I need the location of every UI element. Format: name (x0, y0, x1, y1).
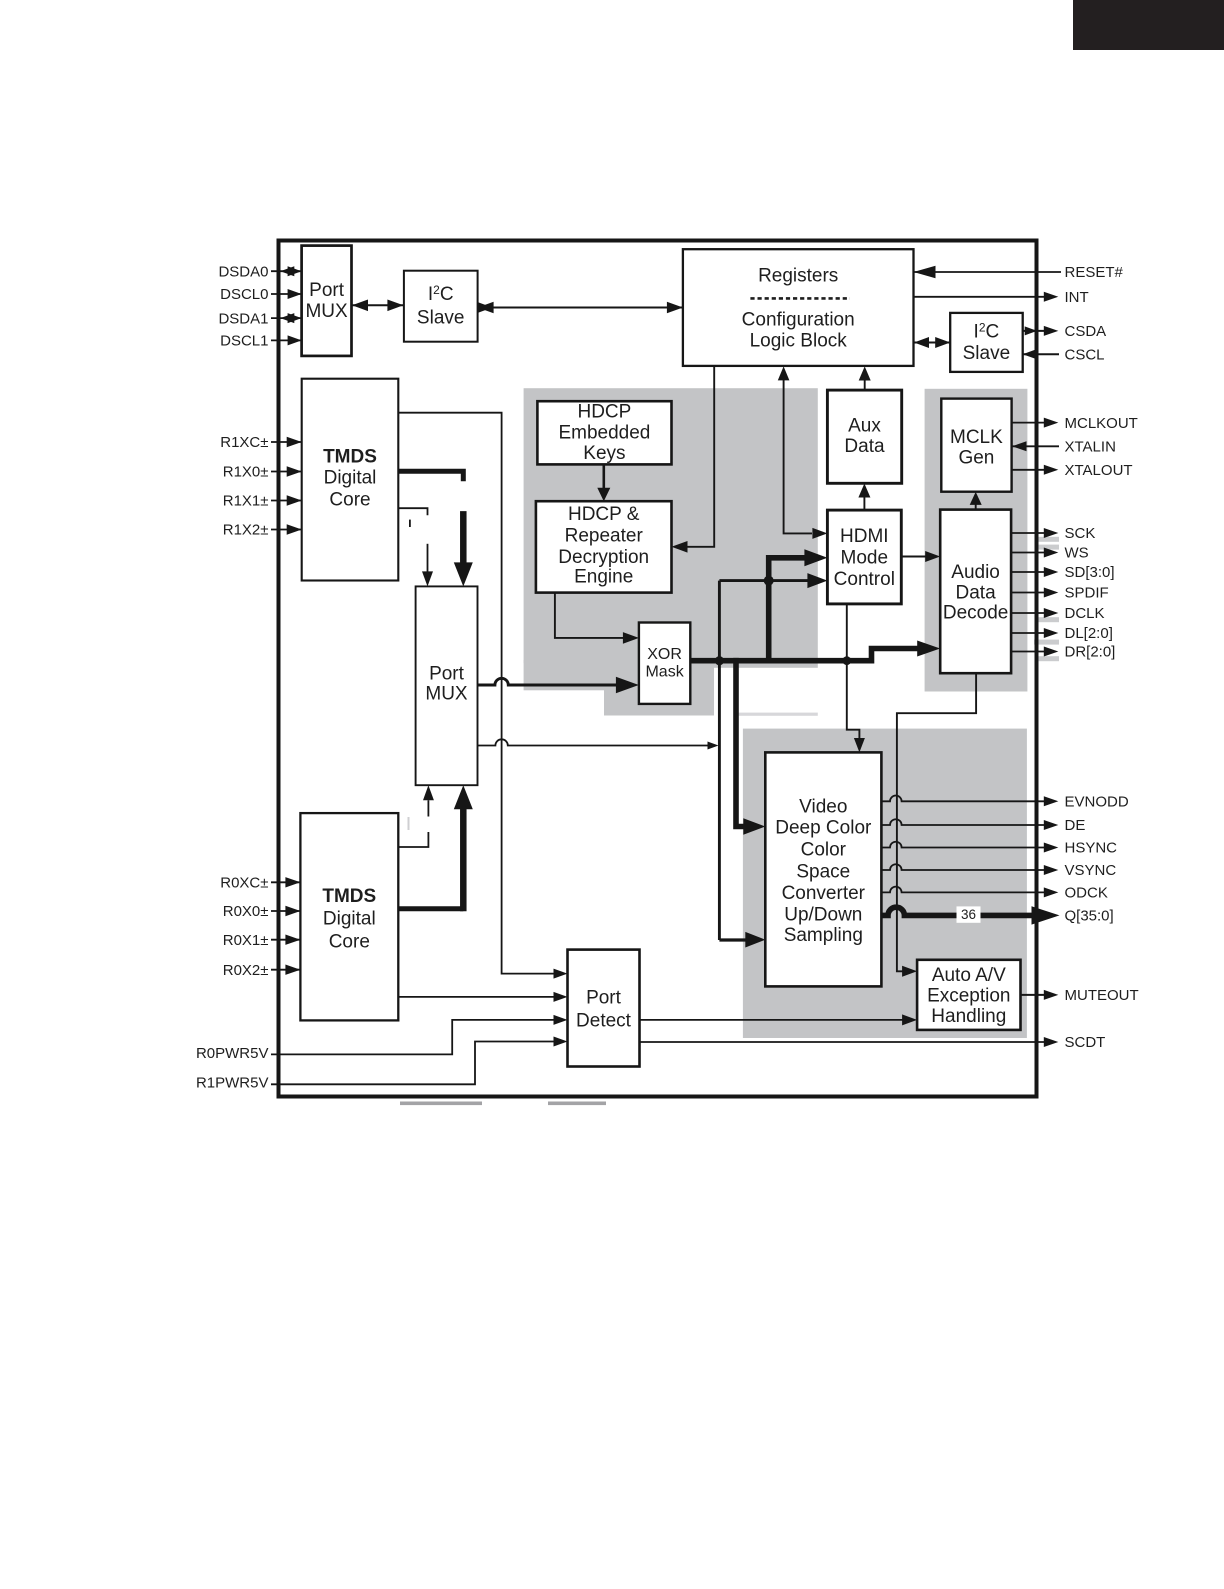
svg-text:Control: Control (834, 569, 895, 590)
block Port MUX (DDC) (302, 246, 352, 356)
block TMDS Digital Core 0 (300, 813, 398, 1020)
block XOR Mask (639, 623, 690, 704)
wire TMDS core 1 thin link to Port MUX (with scan gaps) (398, 508, 433, 586)
svg-text:R0XC±: R0XC± (220, 875, 268, 892)
wire INT output from Registers (914, 292, 1059, 302)
svg-text:DSCL0: DSCL0 (220, 286, 268, 303)
wire HSYNC output (with hop) (881, 842, 1058, 853)
svg-text:Keys: Keys (583, 443, 625, 464)
block Audio Data Decode (940, 510, 1011, 674)
wire XOR mask output main thick line to Audio decode (690, 641, 940, 661)
block MCLK Gen (941, 399, 1011, 492)
block Aux Data (827, 390, 901, 483)
wire R0X2 to TMDS core 0 (271, 965, 300, 975)
svg-text:R0X2±: R0X2± (223, 962, 269, 979)
block Video Deep Color Color Space Converter Up/Down Sampling (765, 752, 881, 986)
svg-text:XTALIN: XTALIN (1065, 439, 1116, 456)
svg-text:Up/Down: Up/Down (784, 904, 862, 925)
svg-text:RESET#: RESET# (1065, 264, 1124, 281)
svg-text:Configuration: Configuration (742, 310, 855, 331)
svg-text:Converter: Converter (782, 883, 866, 904)
svg-text:Data: Data (956, 582, 997, 603)
wire Port Detect to Auto A/V exception handling (640, 1014, 918, 1025)
wire R1PWR5V to Port Detect (271, 1037, 568, 1085)
svg-text:Detect: Detect (576, 1010, 632, 1031)
wire Registers to right I2C Slave (bidirectional) (914, 337, 950, 348)
svg-text:DSDA0: DSDA0 (218, 263, 268, 280)
wire R0PWR5V to Port Detect (271, 1015, 568, 1055)
svg-text:HDMI: HDMI (840, 526, 889, 547)
svg-text:Port: Port (309, 280, 345, 301)
wire I2C Slave to Registers (bidirectional) (477, 302, 683, 314)
svg-text:Deep Color: Deep Color (775, 817, 872, 838)
wire Registers to HDCP decryption engine (672, 366, 715, 553)
svg-text:Port: Port (586, 987, 622, 1008)
svg-text:DSDA1: DSDA1 (218, 310, 268, 327)
wire DSDA1 to Port MUX (bidirectional) (271, 313, 302, 323)
wire SCK output (1011, 528, 1058, 538)
svg-text:R0X1±: R0X1± (223, 932, 269, 949)
svg-text:VSYNC: VSYNC (1065, 862, 1117, 879)
svg-text:MUTEOUT: MUTEOUT (1065, 987, 1139, 1004)
junction dot D3 on main line (842, 656, 851, 665)
svg-text:I2C: I2C (428, 283, 454, 305)
block I2C Slave (left) (404, 271, 478, 342)
block I2C Slave (right) (950, 313, 1023, 372)
block Port MUX (TMDS center) (416, 586, 478, 785)
wire XTALOUT output (1012, 465, 1059, 475)
svg-text:Slave: Slave (963, 343, 1011, 364)
block Auto A/V Exception Handling (917, 960, 1020, 1030)
block HDCP &amp; Repeater Decryption Engine (536, 501, 672, 592)
svg-text:INT: INT (1065, 289, 1089, 306)
wire Audio decode to MCLK Gen (970, 492, 982, 510)
gray dash artifacts below bottom border (400, 1102, 482, 1106)
svg-text:Color: Color (801, 839, 847, 860)
svg-text:CSDA: CSDA (1065, 323, 1107, 340)
wire HDCP engine to XOR mask (555, 593, 639, 644)
svg-text:HSYNC: HSYNC (1065, 840, 1118, 857)
svg-text:Decode: Decode (943, 603, 1009, 624)
svg-text:Repeater: Repeater (565, 526, 644, 547)
svg-text:Video: Video (799, 796, 847, 817)
wire DR[2:0] output (1011, 647, 1058, 657)
gray ghost artifacts near audio pins (1037, 537, 1059, 542)
svg-text:36: 36 (961, 907, 976, 922)
wire Q[35:0] thick bus output (with hop and 36 marker) (881, 906, 1059, 924)
svg-text:Handling: Handling (931, 1006, 1006, 1027)
svg-text:DR[2:0]: DR[2:0] (1065, 644, 1116, 661)
block Port Detect (568, 950, 640, 1067)
svg-text:XOR: XOR (647, 646, 682, 663)
block TMDS Digital Core 1 (302, 379, 399, 581)
svg-text:Registers: Registers (758, 266, 838, 287)
block Registers / Configuration Logic Block (683, 249, 914, 366)
svg-text:Aux: Aux (848, 415, 881, 436)
wire DSDA0 to Port MUX (bidirectional) (271, 266, 302, 276)
wire RESET# input to Registers (914, 266, 1062, 278)
wire DSCL1 to Port MUX (271, 335, 302, 345)
svg-text:Logic Block: Logic Block (750, 331, 848, 352)
svg-text:MCLK: MCLK (950, 427, 1003, 448)
svg-text:R0PWR5V: R0PWR5V (196, 1045, 269, 1062)
wire Port MUX lower output (with hop) (477, 739, 719, 749)
svg-text:TMDS: TMDS (323, 447, 377, 468)
svg-text:Gen: Gen (958, 448, 994, 469)
svg-text:Engine: Engine (574, 567, 633, 588)
svg-text:DSCL1: DSCL1 (220, 333, 268, 350)
wire TMDS core 0 thin link up to Port MUX (with scan gap) (398, 785, 434, 847)
wire SCDT output from Port Detect (640, 1037, 1059, 1047)
gray shaded region G3 (video area) (743, 729, 1027, 1038)
svg-text:Decryption: Decryption (558, 547, 649, 568)
wire HDCP keys to decryption engine (597, 464, 610, 501)
svg-text:R1PWR5V: R1PWR5V (196, 1074, 269, 1091)
svg-text:ODCK: ODCK (1065, 885, 1108, 902)
svg-text:CSCL: CSCL (1065, 346, 1105, 363)
svg-text:Data: Data (844, 436, 885, 457)
gray artifact line under G1 (738, 713, 818, 716)
svg-text:MCLKOUT: MCLKOUT (1065, 415, 1138, 432)
wire R1X0 to TMDS core 1 (271, 466, 302, 476)
svg-text:Digital: Digital (324, 468, 377, 489)
block HDMI Mode Control (827, 510, 901, 604)
svg-text:I2C: I2C (974, 321, 1000, 343)
svg-text:DL[2:0]: DL[2:0] (1065, 625, 1113, 642)
wire thick branch down to video block (736, 658, 765, 835)
svg-text:WS: WS (1065, 545, 1089, 562)
svg-text:Embedded: Embedded (558, 422, 650, 443)
wire DCLK output (1011, 608, 1058, 618)
svg-text:Audio: Audio (951, 562, 1000, 583)
wire DSCL0 to Port MUX (271, 289, 302, 299)
wire HDMI mode control to video block top (with jog) (847, 604, 865, 753)
svg-text:MUX: MUX (425, 683, 468, 704)
svg-text:Core: Core (329, 932, 370, 953)
svg-text:R1X0±: R1X0± (223, 464, 269, 481)
svg-text:R1XC±: R1XC± (220, 434, 268, 451)
svg-text:SPDIF: SPDIF (1065, 585, 1109, 602)
wire TMDS core 1 to Port Detect via long vertical (398, 413, 567, 979)
svg-text:Mask: Mask (645, 663, 684, 680)
svg-text:MUX: MUX (305, 301, 348, 322)
wire TMDS core 1 thick elbow to Port MUX (with scan gap) (396, 471, 473, 586)
svg-text:TMDS: TMDS (322, 886, 376, 907)
svg-text:DCLK: DCLK (1065, 605, 1105, 622)
wire configuration net to Registers and HDMI mode control (778, 366, 828, 539)
wire HDMI mode control to Audio decode (901, 551, 940, 562)
svg-text:Auto A/V: Auto A/V (932, 965, 1006, 986)
block HDCP Embedded Keys (537, 401, 671, 464)
wire R1X2 to TMDS core 1 (271, 524, 302, 534)
wire TMDS core 0 thick elbow up to Port MUX (396, 785, 473, 911)
wire CSDA from right I2C Slave (1023, 326, 1059, 336)
wire Port MUX to XOR mask (with hop) (477, 677, 639, 694)
svg-text:Mode: Mode (841, 548, 889, 569)
wire R1X1 to TMDS core 1 (271, 495, 302, 505)
svg-text:HDCP: HDCP (577, 402, 631, 423)
svg-text:R0X0±: R0X0± (223, 903, 269, 920)
wire R1XC to TMDS core 1 (271, 437, 302, 447)
outer chip border (279, 241, 1037, 1097)
svg-text:Space: Space (796, 861, 850, 882)
wire Aux Data to Registers (859, 366, 871, 390)
svg-text:R1X1±: R1X1± (223, 493, 269, 510)
wire WS output (1011, 548, 1058, 558)
svg-text:R1X2±: R1X2± (223, 522, 269, 539)
svg-text:HDCP &: HDCP & (568, 504, 640, 525)
wire R0XC to TMDS core 0 (271, 877, 300, 887)
wire DL[2:0] output (1011, 628, 1058, 638)
wire Audio decode to Auto A/V exception handling (897, 673, 976, 977)
svg-text:Digital: Digital (323, 909, 376, 930)
svg-text:XTALOUT: XTALOUT (1065, 462, 1133, 479)
wire CSCL input to right I2C Slave (1023, 350, 1059, 359)
wire SD[3:0] output (1011, 567, 1058, 577)
wire R0X0 to TMDS core 0 (271, 906, 300, 916)
svg-text:Slave: Slave (417, 308, 465, 329)
junction dot D1 on main line (715, 656, 724, 665)
svg-text:DE: DE (1065, 817, 1086, 834)
gray shaded region G2 (audio area) (925, 389, 1028, 692)
svg-text:Port: Port (429, 664, 465, 685)
junction dot D2 at control crossing (764, 576, 774, 586)
wire VSYNC output (with hop) (881, 864, 1058, 875)
wire TMDS core 0 to Port Detect (398, 992, 567, 1002)
wire ODCK output (with hop) (881, 887, 1058, 898)
svg-text:SD[3:0]: SD[3:0] (1065, 564, 1115, 581)
wire DE output (with hop) (881, 819, 1058, 830)
svg-text:Exception: Exception (927, 985, 1010, 1006)
wire XTALIN input to MCLK Gen (1012, 441, 1059, 451)
wire EVNODD output (with hop) (881, 796, 1058, 807)
svg-text:Sampling: Sampling (784, 925, 863, 946)
wire R0X1 to TMDS core 0 (271, 935, 300, 945)
wire medium branch to HDMI control and video sampling (719, 573, 827, 947)
gray shaded region G1 (HDCP area) (524, 388, 818, 715)
wire MUTEOUT output from Auto A/V (1021, 990, 1059, 1000)
svg-text:SCK: SCK (1065, 525, 1096, 542)
svg-text:EVNODD: EVNODD (1065, 794, 1129, 811)
black header corner block (1073, 0, 1224, 50)
wire Port MUX to I2C Slave (bidirectional) (352, 300, 403, 312)
svg-text:Q[35:0]: Q[35:0] (1065, 908, 1114, 925)
wire HDMI mode control to Aux Data (858, 484, 870, 511)
wire thick branch up to HDMI mode control (769, 549, 828, 663)
svg-text:SCDT: SCDT (1065, 1034, 1106, 1051)
wire MCLKOUT output (1012, 418, 1059, 428)
svg-text:Core: Core (329, 490, 370, 511)
wire SPDIF output (1011, 588, 1058, 598)
